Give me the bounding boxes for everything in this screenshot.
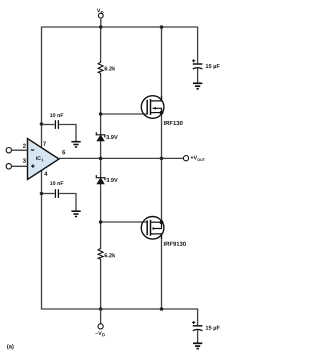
label R1 6.2k xyxy=(105,66,116,70)
op-amp plus sign xyxy=(31,164,34,167)
label -VD xyxy=(95,331,104,336)
wire middle rail lower xyxy=(100,260,102,309)
wire C1 to ground xyxy=(197,68,199,83)
ground G3 xyxy=(71,211,80,216)
wire output stub xyxy=(162,157,184,159)
capacitor C3 10nF xyxy=(55,189,58,198)
terminal -VD xyxy=(98,309,103,329)
terminal VD xyxy=(98,13,103,27)
wire C3 branch xyxy=(42,193,55,195)
node junction zener midpoint xyxy=(99,157,103,161)
ground G2 xyxy=(71,142,80,147)
op-amp minus sign xyxy=(31,149,34,151)
label C1 15uF xyxy=(206,64,220,69)
wire pin4 supply branch xyxy=(41,171,43,310)
terminal input 2 xyxy=(6,148,27,153)
wire top rail xyxy=(42,26,198,28)
wire op-amp output to right rail xyxy=(59,157,162,159)
wire gate Q2 xyxy=(101,221,148,223)
wire C4 branch xyxy=(197,309,199,326)
label figure (a) xyxy=(7,344,14,349)
label VD xyxy=(97,9,104,14)
label Q2 IRF9130 xyxy=(164,242,186,246)
zener diode D2 xyxy=(96,175,105,184)
label +VOUT xyxy=(191,156,205,161)
ground G1 xyxy=(193,83,202,89)
label pin 7 xyxy=(43,142,46,146)
ground G4 xyxy=(193,343,202,348)
wire pin7 supply branch xyxy=(41,27,43,148)
op-amp U1 IC1 xyxy=(28,139,60,180)
label R2 6.2k xyxy=(105,253,116,257)
node junction pin4 tap xyxy=(40,192,44,196)
wire right rail upper xyxy=(161,27,163,100)
label pin 6 xyxy=(62,150,65,154)
node junction Q1 source xyxy=(160,111,164,115)
transistor Q2 IRF9130 xyxy=(141,217,164,240)
node junction gate Q2 xyxy=(99,220,103,224)
label Q1 IRF130 xyxy=(164,121,183,125)
label IC1 xyxy=(36,156,43,161)
label D1 3.9V xyxy=(106,135,117,139)
capacitor C4 15uF xyxy=(192,321,202,331)
node junction bottom right xyxy=(160,307,164,311)
node junction Q2 source xyxy=(160,220,164,224)
wire C2 to ground xyxy=(59,125,76,142)
label pin 3 xyxy=(23,158,26,162)
node junction bottom middle xyxy=(99,307,103,311)
wire middle rail upper xyxy=(100,27,102,61)
label C2 10nF xyxy=(50,113,63,117)
wire C2 branch xyxy=(42,124,55,126)
label pin 2 xyxy=(23,144,26,148)
wire gate Q1 xyxy=(101,113,148,115)
wire middle rail centre xyxy=(100,74,102,247)
capacitor C1 xyxy=(192,59,202,69)
terminal +VOUT xyxy=(183,156,188,161)
resistor R2 6.2k xyxy=(98,247,103,260)
node junction top right xyxy=(160,25,164,29)
node junction gate Q1 xyxy=(99,112,103,116)
wire right rail lower xyxy=(161,234,163,309)
node junction pin7 tap xyxy=(40,122,44,126)
label D2 3.9V xyxy=(106,178,117,182)
transistor Q1 IRF130 xyxy=(141,96,164,119)
node junction VD rail xyxy=(99,25,103,29)
wire bottom rail xyxy=(42,308,198,310)
wire C3 to ground xyxy=(59,194,76,211)
wire C4 to ground xyxy=(197,330,199,343)
wire C1 branch xyxy=(197,27,199,64)
terminal input 3 xyxy=(6,164,27,169)
node junction output xyxy=(160,157,164,161)
zener diode D1 xyxy=(96,132,105,141)
label pin 4 xyxy=(44,172,47,176)
capacitor C2 10nF xyxy=(55,120,58,129)
wire right rail centre xyxy=(161,113,163,223)
resistor R1 6.2k xyxy=(98,61,103,75)
label C4 15uF xyxy=(206,326,220,331)
label C3 10nF xyxy=(50,181,63,185)
